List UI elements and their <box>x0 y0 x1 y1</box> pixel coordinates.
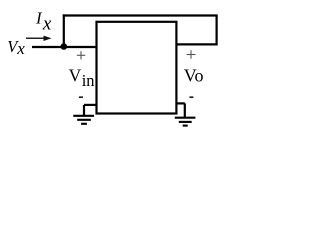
svg-text:in: in <box>82 71 95 90</box>
svg-text:x: x <box>42 14 52 35</box>
svg-text:V: V <box>69 65 82 85</box>
svg-text:I: I <box>35 8 43 27</box>
wire: left ground stub vertical <box>83 105 85 116</box>
current arrow Ix direction <box>26 36 52 41</box>
svg-text:Vo: Vo <box>184 66 204 86</box>
terminal + (right) <box>187 50 196 58</box>
wire: feedback bottom horizontal to box right edge <box>176 43 216 45</box>
wire: feedback vertical up from junction <box>63 14 65 47</box>
node: junction dot on input wire <box>61 43 68 50</box>
wire: feedback right vertical <box>216 16 218 46</box>
two-port network box <box>97 22 177 114</box>
wire: right ground stub horizontal <box>176 102 184 104</box>
wire: feedback top horizontal <box>63 14 218 16</box>
wire: input from Vx to box left edge <box>32 46 97 48</box>
ground (right) <box>175 118 196 126</box>
svg-text:x: x <box>16 39 25 58</box>
terminal + (left) <box>77 51 86 59</box>
ground (left) <box>73 116 94 124</box>
terminal - (right) <box>189 96 193 98</box>
wire: left ground stub horizontal <box>84 104 97 106</box>
terminal - (left) <box>79 96 83 98</box>
wire: right ground stub vertical <box>184 103 186 117</box>
